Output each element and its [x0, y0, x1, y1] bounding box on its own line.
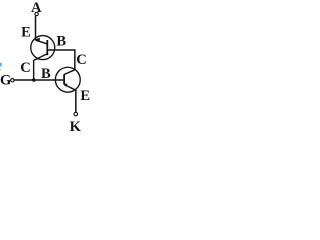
terminal A: [35, 12, 38, 15]
transistor Q2 collector wire: [64, 70, 75, 75]
transistor Q1 collector wire: [34, 54, 48, 80]
svg-text:E: E: [21, 24, 31, 40]
svg-text:K: K: [70, 119, 82, 131]
transistor Q2 emitter arrow: [64, 84, 68, 87]
svg-text:A: A: [31, 0, 42, 16]
transistor Q2 emitter wire: [64, 85, 76, 113]
wire A lead: [35, 16, 37, 41]
svg-text:B: B: [56, 33, 66, 49]
transistor Q1 emitter arrow: [35, 38, 40, 42]
terminal G: [11, 79, 14, 82]
transistor Q2 base bar: [63, 74, 65, 84]
svg-text:C: C: [76, 52, 86, 68]
wire G to Q2 base: [14, 79, 63, 81]
edge artifact orange smudge: [0, 68, 1, 71]
svg-text:C: C: [20, 60, 30, 76]
terminal K: [74, 112, 78, 116]
svg-text:E: E: [80, 88, 90, 104]
transistor Q1 base bar: [46, 40, 48, 55]
edge artifact blue dot: [0, 63, 2, 67]
transistor Q1 circle: [31, 36, 55, 60]
svg-text:B: B: [41, 66, 51, 82]
junction dot: [32, 78, 36, 82]
wire Q1 base to right corner: [48, 50, 75, 70]
transistor Q2 circle: [55, 67, 80, 92]
transistor Q1 emitter wire: [36, 40, 48, 44]
svg-text:G: G: [0, 73, 11, 89]
